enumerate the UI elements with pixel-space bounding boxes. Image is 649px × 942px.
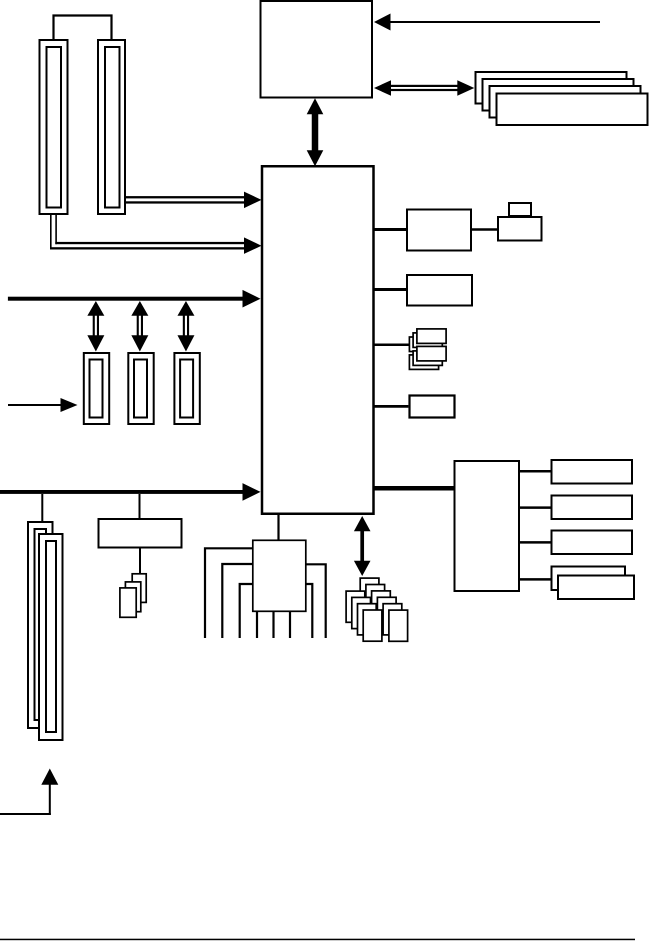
PCI slot 2 inner: [134, 360, 147, 418]
wire IDE to device 3: [520, 541, 551, 544]
LAN jack top: [509, 203, 531, 216]
header stack bottom middle: [413, 351, 442, 366]
wire LAN box to jack: [471, 228, 498, 231]
peripheral box 2: [407, 275, 472, 306]
super I/O leg left 2: [222, 564, 253, 638]
PCI slot 2 outer: [128, 353, 153, 424]
AGP/system thick bus into chipset: [8, 290, 261, 308]
wire IDE to device 2: [520, 506, 551, 509]
PCI slot 1 outer: [84, 353, 109, 424]
wire keyboard box to connector stack: [139, 548, 141, 574]
LAN jack main: [498, 217, 542, 241]
PCI slot double arrow 1: [87, 301, 104, 352]
memory bus hollow arrow from DIMM slot1 bottom elbow to chipset: [50, 214, 262, 254]
thick wire chipset to IDE box: [374, 486, 454, 491]
cache/slot stack of 4 rectangles top right: [476, 72, 627, 104]
wire chipset to box 2: [374, 288, 408, 291]
device box 3: [552, 531, 633, 555]
peripheral box 4: [410, 396, 455, 418]
super I/O chip: [253, 540, 306, 611]
PCI slot 3 inner: [180, 360, 193, 418]
LAN controller box: [407, 210, 471, 251]
PCI slot double arrow 3: [177, 301, 194, 352]
header stack top back: [409, 337, 438, 352]
super I/O leg right outer: [306, 564, 326, 638]
super I/O bottom leg 1: [256, 611, 258, 638]
super I/O leg left 3: [240, 584, 253, 638]
double-headed hollow-shaft arrow CPU to cache stack: [374, 80, 474, 96]
PCI slot 3 outer: [174, 353, 199, 424]
memory bus hollow arrow from DIMM slot2 to chipset: [126, 192, 262, 209]
ISA slot front outer: [39, 534, 63, 740]
DIMM slot 2 outer: [98, 40, 125, 214]
keyboard controller box: [99, 519, 182, 548]
USB connector cluster left stack: [346, 591, 365, 622]
device box 2: [552, 496, 633, 520]
wire branch to keyboard box: [139, 494, 141, 519]
connector stack front: [120, 588, 136, 617]
wire IDE to device 4: [520, 578, 558, 581]
device box 1: [552, 460, 633, 484]
header stack bottom back: [409, 355, 438, 370]
device box 4 front: [558, 576, 634, 600]
power arrow bottom left: [0, 769, 58, 816]
DIMM slot 2 inner: [105, 47, 120, 208]
wire IDE to device 1: [520, 470, 551, 473]
ISA slot back outer: [28, 522, 53, 728]
top box CPU: [261, 1, 373, 98]
super I/O leg right inner: [306, 584, 312, 638]
super I/O bottom leg 2: [272, 611, 274, 638]
vertical double arrow chipset to USB cluster: [354, 516, 371, 576]
super I/O bottom leg 3: [289, 611, 291, 638]
wire linking DIMM slot tops: [54, 16, 112, 41]
wire chipset to stacked headers: [374, 344, 415, 347]
bottom rule: [0, 939, 635, 941]
thin arrow into PCI slot 1: [8, 398, 78, 412]
connector stack back: [132, 574, 146, 603]
IDE controller tall box: [455, 461, 520, 591]
ISA thick bus into chipset: [0, 483, 261, 501]
central chipset box: [262, 166, 374, 514]
super I/O leg left 1: [205, 548, 253, 638]
PCI slot 1 inner: [90, 360, 103, 418]
device box 4 back: [552, 567, 626, 591]
ISA slot front inner: [46, 541, 56, 732]
wire arrow into CPU right edge: [374, 14, 600, 31]
header stack top middle: [413, 333, 442, 348]
header stack top front: [417, 329, 446, 344]
wire chipset to box 4: [374, 405, 409, 408]
PCI slot double arrow 2: [131, 301, 148, 352]
vertical double arrow CPU to chipset: [307, 98, 324, 166]
wire branch to ISA slots: [41, 494, 43, 522]
USB connector cluster right stack: [360, 578, 379, 609]
DIMM slot 1 outer: [40, 40, 68, 214]
wire chipset to super I/O chip: [277, 514, 279, 540]
header stack bottom front: [417, 346, 446, 361]
connector stack middle: [125, 582, 140, 612]
ISA slot back inner: [35, 529, 47, 720]
USB connector front right: [389, 610, 408, 641]
wire chipset to LAN box: [374, 228, 408, 231]
DIMM slot 1 inner: [47, 47, 62, 208]
